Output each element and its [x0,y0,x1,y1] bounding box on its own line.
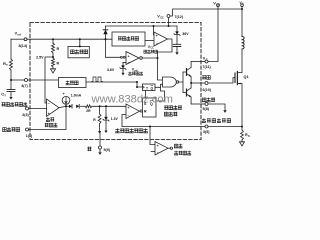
svg-text:www.838dz.com: www.838dz.com [91,93,173,105]
svg-text:−: − [127,114,129,118]
svg-text:R: R [57,62,60,66]
svg-text:ref: ref [18,33,21,37]
svg-text:CC: CC [150,47,154,50]
svg-text:7(12): 7(12) [175,15,184,19]
svg-text:+: + [156,34,158,38]
svg-text:+: + [127,106,129,110]
svg-text:CC: CC [160,16,164,20]
svg-text:7(11): 7(11) [203,65,212,69]
svg-text:8(14): 8(14) [19,44,28,48]
svg-text:R: R [57,47,60,51]
svg-text:+: + [128,54,130,58]
svg-text:2(3): 2(3) [22,113,29,117]
svg-text:2.5V: 2.5V [36,55,44,59]
svg-text:+: + [157,144,159,148]
svg-text:4(7): 4(7) [21,84,28,88]
svg-text:3.6V: 3.6V [107,68,115,72]
svg-text:36V: 36V [182,32,189,36]
svg-text:1.3V: 1.3V [111,117,119,121]
svg-text:3(5): 3(5) [203,130,210,134]
svg-text:−: − [157,151,159,155]
svg-text:1(1): 1(1) [26,134,33,138]
svg-text:5(8): 5(8) [203,107,210,111]
svg-text:Q: Q [151,86,154,90]
svg-text:5(9): 5(9) [104,148,111,152]
svg-text:−: − [156,42,158,46]
svg-text:−: − [128,60,130,64]
svg-text:Q: Q [150,102,153,106]
svg-text:2R: 2R [86,109,91,113]
svg-text:1.0mA: 1.0mA [71,93,82,97]
svg-text:C: C [206,58,208,62]
svg-text:R: R [144,110,147,114]
svg-text:CC: CC [216,3,220,7]
svg-text:Q1: Q1 [244,75,249,79]
svg-text:S: S [248,134,250,138]
svg-text:6(10): 6(10) [203,88,212,92]
